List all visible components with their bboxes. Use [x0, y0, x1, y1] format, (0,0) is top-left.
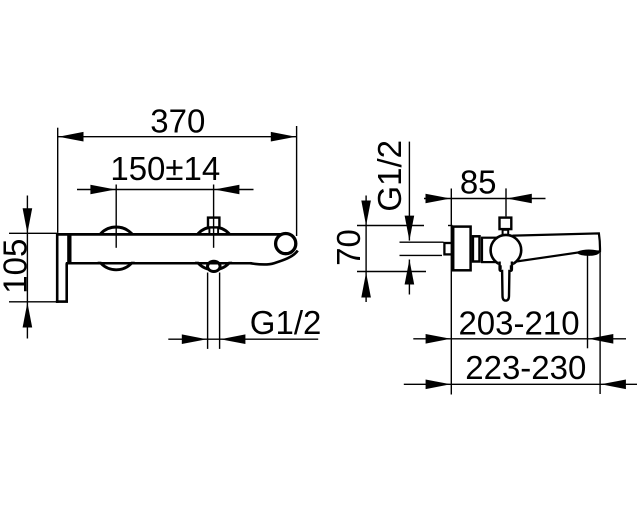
svg-text:105: 105: [0, 239, 34, 294]
dim G12R ext line bottom: [400, 254, 443, 256]
body bottom edge: [66, 262, 252, 265]
wall nipple side: [444, 243, 453, 254]
neck side: [482, 238, 497, 262]
lever handle front bottom edge: [56, 300, 68, 303]
dim 223 line: [404, 383, 637, 385]
dim 105 ext line bottom: [9, 301, 56, 303]
arrow 223 left: [426, 380, 451, 390]
dim 70 ext line bottom: [357, 271, 426, 273]
dim 105 line: [26, 196, 28, 339]
svg-text:G1/2: G1/2: [371, 140, 408, 212]
spout aerator lip: [577, 250, 600, 255]
dim 70 ext line top: [357, 225, 424, 227]
dim 85 line: [424, 198, 546, 200]
arrow 105 top: [23, 208, 33, 233]
lever side outline: [500, 262, 512, 301]
dim 85 ext line right: [505, 188, 507, 216]
arrow 203 right: [588, 334, 613, 344]
knob stem front: [209, 228, 218, 233]
arrow 85 left: [426, 194, 451, 204]
svg-text:203-210: 203-210: [458, 304, 579, 341]
arrow G12L right: [220, 334, 245, 344]
dim 70 line: [365, 196, 367, 303]
lever handle front left edge: [56, 233, 59, 303]
dim 203 line: [413, 338, 626, 340]
svg-text:70: 70: [330, 229, 367, 266]
dim G12L ext line left: [207, 273, 209, 349]
arrow 150 left: [90, 185, 115, 195]
arrow 370 left: [59, 132, 84, 142]
arrow G12L left: [182, 334, 207, 344]
knob square side: [500, 218, 512, 230]
lever ear notches: [500, 265, 502, 269]
knob stem side: [503, 230, 509, 235]
dim G12L ext line right: [219, 273, 221, 349]
escutcheon circle left: [95, 227, 138, 270]
svg-text:85: 85: [460, 163, 497, 200]
svg-text:223-230: 223-230: [465, 349, 586, 386]
arrow 223 right: [601, 380, 626, 390]
dim 203 ext line right: [587, 255, 589, 348]
arrow 105 bottom: [23, 303, 33, 328]
spout side: [514, 233, 601, 262]
arrow G12R bottom: [405, 260, 415, 285]
knob square front: [208, 218, 219, 228]
dim 150 line: [77, 189, 254, 191]
collar side: [473, 236, 480, 261]
dim 85 wall ext line: [450, 189, 452, 395]
dim 150 ext line left: [115, 185, 117, 248]
svg-text:G1/2: G1/2: [250, 304, 322, 341]
dim G12R ext line top: [400, 241, 444, 243]
dim 70 ext line top b: [448, 225, 453, 227]
arrow 70 top: [361, 201, 371, 226]
dim 105 ext line top: [9, 232, 57, 234]
dim G12R tail top: [408, 142, 410, 241]
arrow 85 right: [507, 194, 532, 204]
dim 370 ext line left: [57, 128, 59, 233]
lever handle front right edge: [65, 263, 68, 302]
spout bottom sweep: [250, 251, 298, 265]
dim 370 line: [58, 136, 297, 138]
hose nipple ellipse: [208, 261, 221, 271]
escutcheon side: [453, 227, 470, 271]
dim 370 ext line right: [296, 126, 298, 236]
escutcheon circle right: [192, 227, 235, 270]
svg-text:370: 370: [150, 102, 205, 139]
body interior mask: [58, 235, 298, 261]
arrow 370 right: [271, 132, 296, 142]
dim 150 ext line right: [213, 185, 215, 248]
arrow 150 right: [214, 185, 239, 195]
spout outlet circle: [276, 234, 296, 254]
body top edge: [57, 233, 282, 236]
arrow 70 bottom: [361, 273, 371, 298]
body left end cap: [67, 233, 71, 263]
dim 223 ext line right: [599, 253, 601, 395]
arrow G12R top: [405, 216, 415, 241]
svg-text:150±14: 150±14: [110, 150, 220, 187]
arrow 203 left: [426, 334, 451, 344]
body circle side: [491, 235, 522, 266]
dim G12R tail bottom: [408, 260, 410, 295]
lever side fill: [498, 258, 513, 302]
dim G12L line: [168, 338, 318, 340]
